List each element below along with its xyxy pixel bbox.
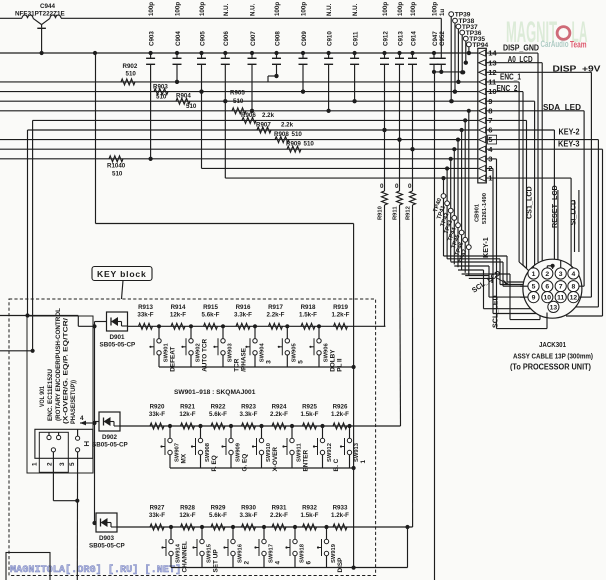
svg-text:1.2k-F: 1.2k-F [331, 411, 349, 418]
svg-text:R916: R916 [236, 304, 251, 311]
node C912 junction [382, 128, 386, 132]
resistor R902 510 [121, 63, 138, 85]
wire row D901 ladder [128, 325, 386, 327]
svg-text:R918: R918 [301, 304, 316, 311]
svg-text:100p: 100p [397, 2, 404, 16]
wire SI_LCD pair [574, 200, 576, 252]
wire CS1_LCD drop [486, 100, 534, 102]
test point TP39 [449, 12, 471, 104]
test point TP37 [456, 24, 478, 84]
svg-text:D903: D903 [99, 535, 115, 542]
switch SW905 5 [278, 324, 305, 367]
svg-text:N.U.: N.U. [352, 3, 359, 16]
diode D901 SB05-05-CP [95, 312, 136, 349]
svg-text:KEY block: KEY block [97, 269, 147, 279]
svg-text:R922: R922 [211, 404, 226, 411]
node pin9 tap [450, 99, 454, 103]
svg-text:C947: C947 [432, 31, 439, 46]
resistor R929 5.6k-F [209, 505, 227, 530]
resistor R926 1.2k-F [331, 404, 349, 429]
svg-text:R912: R912 [406, 206, 412, 220]
wire stub y315 [0, 315, 78, 317]
test point TP41 [436, 166, 449, 258]
svg-text:2.2k-F: 2.2k-F [267, 312, 285, 319]
wire KEY-2 line [486, 139, 598, 141]
svg-text:1.5k-F: 1.5k-F [301, 512, 319, 519]
wire SDA_LED net [0, 110, 478, 112]
svg-text:C905: C905 [199, 31, 206, 46]
wire ENC_1 net [0, 81, 478, 83]
switch SW903 TCR /PHASE [213, 324, 247, 372]
capacitor C909 100p [299, 2, 308, 94]
node C908 junction [274, 74, 278, 78]
svg-text:R925: R925 [302, 404, 317, 411]
svg-text:SW904: SW904 [259, 343, 265, 363]
wire route pin10 [458, 269, 484, 271]
switch SW918 6 [285, 525, 312, 568]
switch SW915 SET UP [192, 525, 219, 573]
encoder body [31, 429, 93, 472]
node pin14 tap [467, 51, 471, 55]
svg-text:5: 5 [69, 462, 76, 466]
svg-text:2: 2 [47, 462, 54, 466]
svg-text:100p: 100p [301, 2, 308, 16]
wire KEY-3 line [486, 148, 602, 150]
node C910 junction [327, 109, 331, 113]
ground bus wire [0, 52, 478, 54]
svg-text:5: 5 [298, 360, 305, 364]
switch SW910 X-OVER [252, 424, 279, 472]
svg-text:0: 0 [380, 183, 384, 190]
capacitor C903 100p [146, 2, 155, 161]
svg-text:R1040: R1040 [107, 162, 126, 169]
test point TP38 [453, 18, 475, 94]
svg-text:13: 13 [550, 304, 558, 311]
svg-text:KEY-1: KEY-1 [481, 237, 490, 258]
wire pin3 drop [486, 158, 496, 160]
capacitor C914 100p [408, 2, 417, 152]
wire SI_LCD extra [578, 190, 580, 252]
test point TP47 [458, 109, 471, 276]
svg-text:2.2k: 2.2k [281, 121, 294, 128]
svg-text:3.3k-F: 3.3k-F [240, 512, 258, 519]
svg-text:DOLBY: DOLBY [329, 349, 336, 372]
switch SW907 MX [160, 424, 187, 468]
node C905 corner [201, 92, 203, 169]
svg-text:ENC_1: ENC_1 [500, 73, 521, 82]
svg-text:ENC. EC11E152U: ENC. EC11E152U [47, 369, 54, 421]
rotary encoder VOL901 EC11E152U [27, 308, 93, 473]
connector JACK301 [520, 259, 582, 318]
wire pin9 net [0, 100, 478, 102]
svg-text:R919: R919 [333, 304, 348, 311]
svg-text:SB05-05-CP: SB05-05-CP [92, 442, 128, 449]
resistor R916 3.3k-F [234, 304, 252, 329]
svg-text:R904: R904 [176, 93, 191, 100]
svg-text:R917: R917 [268, 304, 283, 311]
svg-text:SW913: SW913 [354, 442, 360, 462]
svg-text:C903: C903 [148, 31, 155, 46]
svg-text:SW916: SW916 [237, 543, 243, 563]
svg-text:C907: C907 [250, 31, 257, 46]
svg-text:5.6k-F: 5.6k-F [202, 312, 220, 319]
svg-text:7: 7 [559, 284, 563, 291]
resistor R932 1.5k-F [301, 505, 319, 530]
svg-text:JACK301: JACK301 [539, 340, 566, 349]
svg-text:8: 8 [572, 284, 576, 291]
svg-text:SW918: SW918 [299, 543, 305, 563]
svg-text:510: 510 [304, 141, 315, 148]
resistor R908 510 [274, 131, 302, 143]
svg-text:510: 510 [112, 171, 123, 178]
svg-text:0: 0 [395, 183, 399, 190]
svg-text:R915: R915 [203, 304, 218, 311]
svg-text:SW905: SW905 [292, 343, 298, 363]
resistor R907 2.2k [256, 121, 294, 133]
svg-text:ASSY CABLE 13P (300mm): ASSY CABLE 13P (300mm) [513, 352, 594, 361]
svg-text:MX: MX [180, 453, 187, 463]
svg-text:SW901–918 : SKQMAJ001: SW901–918 : SKQMAJ001 [174, 389, 256, 396]
svg-text:4: 4 [572, 271, 576, 278]
node C913 junction [397, 138, 401, 142]
svg-text:3: 3 [265, 360, 272, 364]
wire route tp46 [465, 275, 489, 277]
svg-text:1.5k-F: 1.5k-F [299, 312, 317, 319]
test point TP40 [433, 176, 446, 256]
wire pin1 net [225, 177, 477, 179]
svg-text:CB901: CB901 [475, 203, 481, 222]
wire SCL_LED route [462, 273, 510, 275]
svg-text:KEY-2: KEY-2 [559, 127, 580, 136]
resistor R921 12k-F [179, 404, 195, 429]
svg-text:(X-OVER/G. EQ/P. EQ/TCR/: (X-OVER/G. EQ/P. EQ/TCR/ [63, 318, 70, 424]
wire C947 long drop [434, 72, 436, 580]
resistor R933 1.2k-F [331, 505, 349, 530]
wire ENC_1 drop [486, 81, 519, 83]
wire route tp47 [469, 277, 492, 279]
svg-text:2.2k-F: 2.2k-F [270, 411, 288, 418]
capacitor C911 N.U. [350, 3, 359, 103]
node C906 corner [224, 101, 226, 178]
switch SW909 G. EQ [221, 424, 248, 472]
connector box bottom left [6, 553, 50, 580]
capacitor C952 1u [437, 9, 446, 74]
svg-text:KEY-3: KEY-3 [558, 139, 580, 148]
svg-text:DISP: DISP [337, 557, 344, 573]
svg-text:R905: R905 [230, 90, 245, 97]
svg-text:10: 10 [544, 295, 552, 302]
resistor R925 1.5k-F [301, 404, 319, 429]
svg-text:12k-F: 12k-F [179, 411, 195, 418]
switch SW906 DOLBY PL II [309, 324, 343, 372]
svg-text:R929: R929 [211, 505, 226, 512]
svg-text:2: 2 [243, 561, 250, 565]
svg-text:R928: R928 [180, 505, 195, 512]
wire pin6 net [28, 129, 478, 131]
svg-text:SI_LCD: SI_LCD [569, 200, 578, 226]
node C904 junction [175, 80, 179, 84]
node C906 junction [223, 99, 227, 103]
svg-text:CS1_LCD: CS1_LCD [524, 186, 533, 219]
svg-text:11: 11 [557, 295, 564, 302]
resistor R910 0 [378, 128, 388, 326]
switch SW916 2 [223, 525, 250, 568]
wire KEY-1 route [454, 265, 489, 267]
svg-text:4: 4 [80, 415, 84, 422]
svg-text:SB05-05-CP: SB05-05-CP [100, 342, 136, 349]
node C908 step [267, 76, 269, 82]
svg-text:2.2k-F: 2.2k-F [270, 512, 288, 519]
svg-text:100p: 100p [148, 2, 155, 16]
svg-text:1: 1 [360, 460, 367, 464]
wire RESET_LCD drop [486, 129, 554, 131]
svg-text:R911: R911 [393, 206, 399, 220]
node C907 junction [250, 109, 254, 113]
node pin10 tap [453, 90, 457, 94]
resistor R912 0 [406, 147, 416, 527]
encoder pin5 wire [76, 452, 78, 580]
wire pin2 net [202, 167, 478, 169]
wire KEY-3 net [0, 148, 478, 150]
svg-text:1.2k-F: 1.2k-F [332, 312, 350, 319]
svg-text:5.6k-F: 5.6k-F [209, 411, 227, 418]
svg-text:33k-F: 33k-F [137, 312, 153, 319]
svg-text:510: 510 [233, 98, 244, 105]
capacitor C912 100p [380, 2, 389, 132]
capacitor C910 N.U. [324, 3, 333, 113]
svg-text:R930: R930 [241, 505, 256, 512]
svg-text:VOL 901: VOL 901 [39, 386, 46, 407]
svg-text:R924: R924 [272, 404, 287, 411]
svg-text:R902: R902 [123, 63, 138, 70]
wire pin2 drop [486, 168, 493, 170]
test point TP44 [447, 138, 460, 268]
diode D903 SB05-05-CP [89, 513, 125, 550]
svg-text:SCL_LED: SCL_LED [491, 295, 500, 328]
node C903 junction [149, 157, 153, 161]
svg-text:510: 510 [126, 71, 137, 78]
resistor R920 33k-F [149, 404, 165, 429]
wire SDA_LED [486, 110, 584, 112]
svg-text:R920: R920 [150, 404, 165, 411]
svg-text:R926: R926 [333, 404, 348, 411]
svg-text:N.U.: N.U. [250, 3, 257, 16]
svg-text:100p: 100p [382, 2, 389, 16]
resistor R917 2.2k-F [267, 304, 285, 329]
switch SW908 P. EQ [191, 424, 218, 472]
test point TP46 [455, 118, 468, 272]
svg-text:Team: Team [570, 40, 587, 51]
test point TP43 [444, 147, 457, 264]
capacitor C913 100p [395, 2, 404, 142]
svg-text:C904: C904 [175, 31, 182, 46]
svg-text:R927: R927 [150, 505, 165, 512]
svg-text:D902: D902 [102, 434, 118, 441]
svg-text:B. C: B. C [333, 458, 340, 471]
svg-text:53261-1490: 53261-1490 [482, 193, 488, 224]
svg-text:100p: 100p [199, 2, 206, 16]
svg-text:33k-F: 33k-F [149, 512, 165, 519]
svg-text:6: 6 [305, 561, 312, 565]
svg-text:C912: C912 [382, 31, 389, 46]
node pin13 tap [464, 61, 468, 65]
svg-text:12k-F: 12k-F [170, 312, 186, 319]
svg-text:(To PROCESSOR UNIT): (To PROCESSOR UNIT) [510, 363, 591, 372]
capacitor C908 100p [272, 2, 281, 78]
KEY block boundary [9, 299, 376, 576]
wire pin1 long [486, 177, 571, 179]
svg-text:/PHASE: /PHASE [240, 347, 247, 372]
svg-text:C910: C910 [326, 31, 333, 46]
node pin12 tap [461, 70, 465, 74]
switch SW911 ENTER [282, 424, 309, 472]
encoder pin4 wire [80, 415, 95, 425]
node C911 junction [353, 99, 357, 103]
capacitor C905 100p [197, 2, 206, 94]
wire row D902 rail [170, 467, 354, 469]
node C909 junction [301, 90, 305, 94]
resistor R1040 510 [107, 156, 126, 178]
resistor R913 33k-F [137, 304, 153, 329]
wire stub y351 [0, 350, 33, 352]
svg-text:1.5k-F: 1.5k-F [301, 411, 319, 418]
capacitor C906 N.U. [221, 3, 230, 103]
switch SW902 AUTO TCR [181, 324, 208, 372]
resistor R911 0 [393, 138, 403, 427]
wire ENC_2 drop [486, 91, 523, 93]
svg-text:P. EQ: P. EQ [211, 455, 218, 471]
svg-text:R932: R932 [302, 505, 317, 512]
test point TP45 [451, 128, 464, 270]
wire row D903 ladder [117, 526, 413, 528]
svg-text:100p: 100p [175, 2, 182, 16]
test point TP42 [440, 157, 453, 262]
resistor R922 5.6k-F [209, 404, 227, 429]
diode D902 SB05-05-CP [92, 412, 128, 449]
svg-text:SW917: SW917 [268, 544, 274, 563]
resistor R928 12k-F [179, 505, 195, 530]
resistor R903 510 [153, 83, 168, 100]
svg-text:3.3k-F: 3.3k-F [240, 411, 258, 418]
resistor R930 3.3k-F [240, 505, 258, 530]
svg-text:3.3k-F: 3.3k-F [234, 312, 252, 319]
svg-text:G. EQ: G. EQ [241, 454, 248, 472]
switch SW913 1 [340, 424, 367, 468]
test point TP94 [467, 42, 489, 55]
svg-text:D901: D901 [110, 334, 126, 341]
svg-text:1.2k-F: 1.2k-F [331, 512, 349, 519]
svg-text:100p: 100p [432, 2, 439, 16]
svg-text:C952: C952 [439, 31, 446, 46]
svg-text:MAGNITOLA[.ORG] [.RU] [.NET]: MAGNITOLA[.ORG] [.RU] [.NET] [10, 564, 181, 576]
resistor R914 12k-F [170, 304, 186, 329]
connector CB901 53261-1490 [475, 48, 498, 224]
svg-text:C913: C913 [397, 31, 404, 46]
wire pin7 drop [486, 119, 526, 121]
svg-text:R931: R931 [272, 505, 287, 512]
wire row3 riser [407, 527, 409, 568]
svg-text:100p: 100p [274, 2, 281, 16]
svg-text:R914: R914 [171, 304, 186, 311]
svg-text:C944: C944 [40, 3, 56, 10]
wire D-chain vertical [94, 322, 96, 524]
wire DISP_GND vertical loop [95, 53, 97, 224]
capacitor C947 100p [430, 2, 439, 74]
capacitor C907 N.U. [248, 3, 257, 113]
wire row D901 rail [159, 366, 354, 368]
svg-text:N.U.: N.U. [326, 3, 333, 16]
svg-text:SB05-05-CP: SB05-05-CP [89, 543, 125, 550]
resistor R923 3.3k-F [240, 404, 258, 429]
watermark MAGNITOLA logo [506, 16, 588, 51]
encoder pin2 wire [52, 452, 54, 501]
svg-text:1: 1 [31, 462, 38, 466]
svg-text:6: 6 [545, 284, 549, 291]
svg-text:4: 4 [274, 561, 281, 565]
label KEY block [92, 267, 152, 300]
wire ENC_2 net [0, 91, 478, 93]
resistor R918 1.5k-F [299, 304, 317, 329]
resistor R931 2.2k-F [270, 505, 288, 530]
node pin11 tap [456, 80, 460, 84]
svg-text:100p: 100p [410, 2, 417, 16]
svg-text:9: 9 [532, 295, 536, 302]
switch SW914 CHANNEL [161, 525, 188, 573]
pin 5 box [488, 135, 497, 144]
svg-text:C911: C911 [352, 31, 359, 46]
svg-text:R923: R923 [241, 404, 256, 411]
node C914 junction [410, 147, 414, 151]
resistor R927 33k-F [149, 505, 165, 530]
svg-text:1u: 1u [439, 9, 446, 16]
svg-text:DEFEAT: DEFEAT [169, 347, 176, 372]
resistor R904 510 [176, 93, 197, 110]
wire pin7 net [33, 119, 478, 121]
resistor R909 510 [286, 141, 314, 153]
wire DISP_+9V [486, 71, 591, 73]
wire route tp40 [444, 255, 508, 257]
svg-text:C909: C909 [301, 31, 308, 46]
svg-text:R933: R933 [333, 505, 348, 512]
wire KEY-2 net [0, 139, 478, 141]
wire common rail vertical [353, 224, 355, 568]
svg-text:PL II: PL II [336, 358, 343, 372]
svg-text:33k-F: 33k-F [149, 411, 165, 418]
wire row D903 rail [171, 567, 408, 569]
node C903 junction [150, 158, 152, 160]
test point TP36 [460, 30, 482, 74]
wire pin3 net [0, 158, 478, 160]
svg-text:R910: R910 [378, 206, 384, 220]
svg-text:C908: C908 [274, 31, 281, 46]
svg-text:N.U.: N.U. [223, 3, 230, 16]
switch SW917 4 [254, 525, 281, 568]
svg-text:(ROTARY ENCODER/PUSH-CONTROL: (ROTARY ENCODER/PUSH-CONTROL [55, 308, 62, 421]
svg-text:DISP_GND: DISP_GND [503, 44, 539, 53]
svg-text:C914: C914 [410, 31, 417, 46]
svg-text:R921: R921 [180, 404, 195, 411]
svg-text:12k-F: 12k-F [179, 512, 195, 519]
svg-text:510: 510 [186, 103, 197, 110]
wire SCL_LCD route [451, 261, 503, 263]
switch SW904 3 [245, 324, 272, 367]
svg-text:1: 1 [532, 271, 536, 278]
svg-text:SET UP: SET UP [212, 549, 219, 573]
svg-text:RESET_LCD: RESET_LCD [550, 185, 559, 228]
wire pin12 net [434, 71, 463, 73]
svg-text:510: 510 [292, 131, 303, 138]
svg-text:2: 2 [545, 271, 549, 278]
